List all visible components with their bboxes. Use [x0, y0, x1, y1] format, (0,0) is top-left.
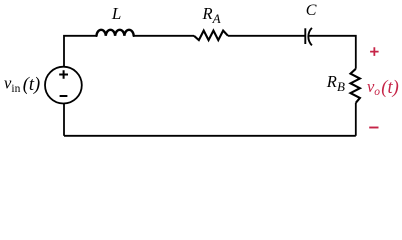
- wire bottom-left vertical: [63, 103, 65, 135]
- svg-text:in: in: [11, 83, 20, 95]
- svg-text:A: A: [212, 11, 221, 26]
- voltage source v_in circle: [45, 67, 82, 104]
- svg-text:C: C: [306, 2, 317, 19]
- svg-text:R: R: [202, 4, 213, 23]
- wire capacitor to top-right corner: [309, 36, 356, 69]
- voltage source minus sign: [60, 95, 68, 97]
- wire top-left segment: [64, 36, 97, 67]
- wire inductor to R_A: [134, 35, 194, 37]
- svg-text:(t): (t): [381, 78, 398, 98]
- wire bottom: [64, 135, 356, 137]
- wire R_A to capacitor: [228, 35, 305, 37]
- svg-text:(t): (t): [23, 75, 40, 95]
- red plus annotation: [370, 47, 379, 56]
- capacitor C left plate: [304, 28, 306, 44]
- wire R_B to bottom-right corner: [355, 103, 357, 136]
- svg-text:o: o: [374, 86, 380, 98]
- inductor L: [97, 30, 134, 36]
- red minus annotation: [369, 127, 378, 129]
- svg-text:R: R: [326, 72, 337, 91]
- resistor R_B: [351, 69, 360, 103]
- capacitor C right curved plate: [308, 28, 312, 46]
- voltage source plus sign: [59, 70, 68, 79]
- svg-text:L: L: [111, 4, 121, 23]
- svg-text:B: B: [337, 79, 345, 94]
- resistor R_A: [194, 31, 228, 40]
